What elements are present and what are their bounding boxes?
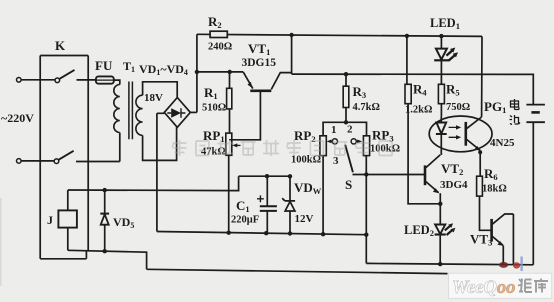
wire long bottom rail B	[147, 269, 448, 273]
wire RP2 bottom to ground rail	[322, 156, 324, 235]
node VD5 bottom junction dot	[103, 249, 107, 253]
svg-text:~220V: ~220V	[1, 111, 34, 125]
label battery 电池	[510, 99, 521, 125]
resistor R1	[227, 72, 232, 133]
node VD5 top junction dot	[103, 188, 107, 192]
wire secondary tap vertical to ground rail	[157, 113, 164, 231]
node C1 top junction dot	[265, 174, 269, 178]
resistor R5	[438, 84, 444, 116]
svg-text:240Ω: 240Ω	[208, 42, 232, 53]
node AC terminal 1	[17, 78, 22, 83]
node AC terminal 2	[17, 159, 22, 164]
wire RP1 bottom to ground rail A	[228, 155, 230, 233]
fuse FU	[96, 76, 114, 83]
node R1 top junction dot	[228, 70, 232, 74]
svg-text:220μF: 220μF	[231, 215, 259, 226]
wire 12V supply stub to C1 and VDW	[239, 175, 290, 177]
switch K pole 1	[55, 70, 75, 83]
svg-text:LED1: LED1	[430, 16, 460, 31]
wire R4 bottom to VT2 emitter node	[408, 104, 440, 204]
svg-text:4.7kΩ: 4.7kΩ	[353, 102, 380, 113]
wire VT1 emitter feed from bus	[197, 71, 243, 73]
svg-text:18kΩ: 18kΩ	[482, 184, 507, 195]
wire fuse to transformer primary top	[114, 80, 120, 84]
wire DC+ bus vertical	[196, 34, 198, 112]
node top rail dot at LED1	[439, 34, 443, 38]
svg-text:3DG15: 3DG15	[242, 57, 277, 69]
svg-text:12V: 12V	[295, 213, 314, 225]
wire selector top bar	[323, 122, 366, 136]
wire top rail	[197, 34, 482, 36]
wire bridge DC+ right corner to bus	[190, 111, 197, 113]
LED LED2	[435, 223, 456, 264]
switch K pole 2	[54, 151, 73, 164]
wire relay top rail	[68, 176, 239, 190]
wire R6 bottom to VT3 base	[480, 196, 491, 230]
wire top rail end down to optocoupler collector	[481, 36, 483, 117]
transistor VT3	[492, 214, 514, 264]
node RP1 ground dot	[227, 231, 231, 235]
potentiometer RP1	[226, 133, 241, 155]
bridge rectifier inner diode symbol	[167, 108, 185, 118]
svg-text:750Ω: 750Ω	[446, 102, 470, 113]
resistor R3	[343, 74, 349, 122]
wire relay bottom rail	[68, 250, 147, 269]
blue mark	[520, 257, 522, 272]
node LED2 ground dot	[438, 262, 442, 266]
svg-text:J: J	[47, 213, 53, 227]
node VDW top junction dot	[288, 174, 292, 178]
watermark box bottom right	[449, 273, 552, 298]
optocoupler light arrows	[449, 125, 462, 139]
node top rail dot at VT1 collector	[289, 33, 293, 37]
svg-text:510Ω: 510Ω	[202, 103, 226, 114]
watermark center	[172, 140, 392, 156]
red mark left	[499, 262, 508, 268]
node selector contact 1	[332, 139, 337, 144]
node top rail dot at R4	[405, 34, 409, 38]
wire emitter ground rail C	[366, 263, 533, 264]
battery plates	[526, 105, 545, 265]
bridge rectifier VD1-VD4 diamond	[164, 98, 190, 128]
wire VT1 collector vertical to top rail	[291, 35, 293, 74]
svg-text:2: 2	[347, 124, 353, 136]
wire secondary top to bridge AC top corner	[143, 82, 178, 98]
transistor VT1	[229, 72, 291, 140]
red mark right	[513, 262, 520, 268]
wire opto emitter to R6	[479, 152, 481, 176]
svg-text:S: S	[345, 177, 352, 192]
node selector contact 2	[351, 139, 356, 144]
svg-text:4N25: 4N25	[490, 137, 515, 149]
relay coil J	[58, 190, 77, 250]
wire RP3 chain vertical	[365, 156, 367, 264]
transformer T1 core	[129, 82, 133, 140]
transformer T1 secondary winding	[136, 95, 143, 135]
wire S common to VT2 base	[353, 174, 425, 176]
wire second rail to battery plus	[292, 74, 534, 104]
node optocoupler emitter dot	[478, 150, 482, 154]
node RP2 ground dot	[321, 232, 325, 236]
scan edge artifact left	[0, 198, 2, 286]
svg-text:18V: 18V	[144, 92, 163, 104]
optocoupler PG1 internal LED	[436, 116, 447, 154]
wire pole1 to fuse	[77, 79, 96, 81]
svg-text:1: 1	[331, 124, 337, 136]
svg-text:K: K	[55, 38, 66, 53]
svg-text:LED2: LED2	[404, 223, 434, 238]
svg-text:WeeQoo: WeeQoo	[452, 278, 515, 298]
optocoupler phototransistor	[466, 117, 482, 151]
node R3 top dot on second rail	[344, 72, 348, 76]
LED LED1	[434, 36, 458, 84]
node VDW bottom junction dot	[288, 231, 292, 235]
wire terminal2 to switch pole 2	[21, 160, 54, 162]
capacitor C1	[257, 176, 277, 233]
diode VD5	[100, 190, 109, 250]
svg-text:3DG4: 3DG4	[440, 179, 468, 191]
node S wire RP3 dot	[364, 172, 368, 176]
svg-text:VD1~VD4: VD1~VD4	[139, 62, 188, 77]
node rail A end dot	[364, 233, 368, 237]
transformer T1 primary winding	[114, 85, 120, 133]
wire pole2 to transformer primary bottom	[76, 133, 120, 162]
wire ground rail A	[157, 232, 366, 235]
wire K box left edge return	[40, 251, 86, 259]
potentiometer RP3	[356, 136, 369, 156]
wire secondary bottom to bridge AC bottom corner	[143, 127, 177, 160]
node R3 bottom dot	[344, 120, 348, 124]
switch S blade	[345, 145, 353, 172]
resistor R2	[210, 31, 227, 37]
transistor VT2	[425, 154, 441, 225]
node R4 emitter junction dot	[438, 202, 442, 206]
potentiometer RP2	[320, 136, 332, 156]
svg-text:FU: FU	[95, 58, 113, 73]
node C1 bottom junction dot	[264, 231, 268, 235]
zener diode VDW	[282, 176, 295, 232]
svg-text:3: 3	[333, 155, 339, 167]
switch K enclosure box	[40, 56, 88, 259]
svg-text:1.2kΩ: 1.2kΩ	[405, 105, 432, 116]
wire terminal1 to switch pole 1	[21, 79, 55, 81]
resistor R4	[405, 36, 411, 104]
optocoupler PG1 envelope	[429, 116, 492, 152]
resistor R6	[477, 176, 483, 196]
node bus junction dot	[195, 70, 199, 74]
